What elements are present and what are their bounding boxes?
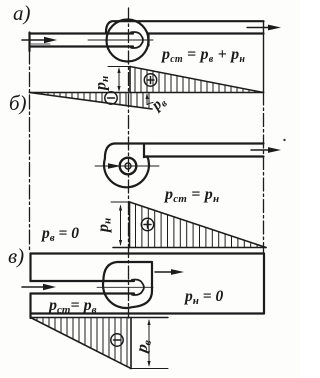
svg-text:рв: рв bbox=[133, 338, 154, 357]
section a fan inlet cap bbox=[131, 32, 143, 48]
svg-text:рст = рн: рст = рн bbox=[163, 186, 219, 205]
section a discharge wedge hatch bbox=[135, 68, 255, 93]
section a discharge wedge left edge bbox=[129, 67, 131, 93]
section b pn extension line bbox=[111, 201, 130, 203]
section v minus symbol bbox=[111, 334, 123, 346]
section v pv bottom extension bbox=[131, 368, 168, 370]
section b pn dimension arrow bbox=[119, 205, 122, 247]
section b fan volute bbox=[104, 144, 149, 188]
section b fan eye bbox=[120, 158, 137, 175]
section a fan horizontal centerline bbox=[88, 39, 153, 41]
section v pv dimension arrow bbox=[147, 319, 150, 367]
section b wedge hatch bbox=[136, 204, 264, 248]
section v enclosure box bbox=[31, 254, 265, 319]
section b wedge left edge bbox=[129, 202, 131, 248]
svg-text:рн = 0: рн = 0 bbox=[183, 288, 223, 307]
svg-text:в): в) bbox=[8, 244, 24, 268]
svg-text:а): а) bbox=[13, 1, 31, 25]
section a minus symbol bbox=[105, 92, 117, 104]
svg-text:рв = 0: рв = 0 bbox=[40, 225, 79, 244]
svg-text:рст = рв + рн: рст = рв + рн bbox=[160, 46, 245, 65]
section v wedge right edge bbox=[130, 318, 132, 369]
section b baseline bbox=[113, 247, 266, 249]
section b discharge duct bbox=[144, 144, 264, 157]
section v wedge hatch bbox=[37, 318, 127, 367]
section a pv leader arrow bbox=[145, 93, 153, 105]
section v inlet duct bbox=[31, 281, 135, 294]
section a right boundary solid bbox=[263, 21, 265, 92]
svg-text:рст= рв: рст= рв bbox=[47, 297, 97, 316]
svg-text:б): б) bbox=[9, 91, 27, 115]
section b discharge arrow bbox=[251, 147, 281, 153]
section v inlet flow arrow bbox=[22, 284, 56, 290]
section a suction wedge hypotenuse bbox=[30, 93, 153, 110]
right reference line dash-dot bbox=[263, 92, 265, 253]
section a inlet duct bbox=[30, 33, 134, 52]
section a pn dimension arrow bbox=[117, 67, 120, 92]
section v fan horizontal centerline bbox=[97, 286, 153, 288]
section a baseline bbox=[30, 92, 264, 94]
section a suction wedge hatch bbox=[36, 93, 149, 109]
section a plus symbol bbox=[144, 74, 156, 86]
section a discharge wedge top edge bbox=[130, 67, 264, 93]
section b fan axis arrow bbox=[95, 163, 159, 169]
section a discharge duct bbox=[113, 21, 264, 33]
section b wedge hypotenuse bbox=[130, 202, 267, 248]
section a fan volute bbox=[106, 20, 149, 62]
section a inlet flow arrow bbox=[22, 37, 57, 44]
svg-text:рн: рн bbox=[95, 218, 114, 234]
left reference line dash-dot bbox=[29, 50, 31, 250]
svg-text:рв: рв bbox=[147, 93, 169, 116]
scan speck bbox=[283, 139, 285, 141]
section v fan volute bbox=[103, 262, 152, 308]
section v wedge hypotenuse bbox=[31, 318, 132, 369]
section a discharge arrow bbox=[247, 25, 281, 31]
section v fan inlet cap bbox=[132, 280, 144, 295]
section b plus symbol bbox=[141, 218, 153, 230]
svg-text:рн: рн bbox=[93, 76, 112, 92]
centerline fan axis vertical dash-dot bbox=[128, 8, 130, 318]
section v outlet arrow bbox=[155, 269, 184, 275]
section a pn extension line bbox=[108, 66, 130, 68]
section v baseline bbox=[31, 317, 169, 319]
